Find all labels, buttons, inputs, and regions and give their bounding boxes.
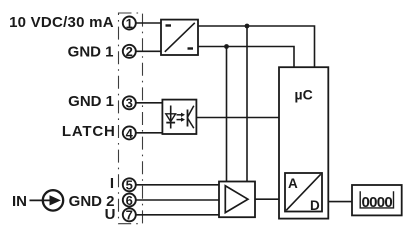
terminal 5	[123, 178, 136, 193]
svg-text:U: U	[105, 206, 116, 223]
svg-text:A: A	[288, 176, 298, 191]
svg-text:IN: IN	[12, 193, 27, 210]
svg-text:7: 7	[126, 208, 133, 223]
wire top rail down to amplifier	[246, 26, 248, 182]
terminal 3	[123, 96, 136, 111]
junction dot on second rail	[224, 44, 229, 49]
terminal 4	[123, 126, 136, 141]
svg-text:µC: µC	[295, 87, 313, 103]
wire DC/DC second output rail	[198, 47, 294, 68]
terminal 1	[123, 16, 136, 31]
svg-text:D: D	[310, 198, 320, 213]
wire terminal3 to optocoupler	[137, 102, 163, 104]
wire terminal7 (U) to amplifier	[137, 214, 220, 216]
terminal 6	[123, 193, 136, 208]
wire terminal2 to DC/DC	[137, 50, 162, 52]
svg-text:3: 3	[126, 96, 133, 111]
junction dot on top rail	[245, 24, 250, 29]
svg-text:6: 6	[126, 193, 133, 208]
svg-text:GND 1: GND 1	[68, 44, 114, 61]
DC/DC converter U1	[161, 20, 198, 55]
svg-text:LATCH: LATCH	[62, 123, 116, 140]
wire DC/DC top output rail	[198, 26, 315, 67]
terminal 2	[123, 44, 136, 59]
optocoupler U2	[162, 100, 196, 134]
wire second rail down to amplifier	[226, 47, 228, 182]
terminal 7	[123, 208, 136, 223]
wire terminal1 to DC/DC	[137, 22, 162, 24]
svg-text:GND 1: GND 1	[68, 93, 114, 110]
wire amplifier to microcontroller	[255, 198, 279, 200]
wire optocoupler to microcontroller	[196, 117, 279, 119]
svg-text:10 VDC/30 mA: 10 VDC/30 mA	[9, 14, 114, 31]
terminal strip dashed boundary	[119, 13, 143, 224]
microcontroller U3	[279, 67, 328, 218]
display 0000	[352, 185, 402, 215]
amplifier A1	[219, 182, 255, 218]
A/D converter	[285, 173, 322, 213]
svg-text:2: 2	[126, 44, 133, 59]
svg-text:I: I	[110, 175, 114, 192]
wire terminal4 to optocoupler	[137, 132, 163, 134]
wire terminal5 (I) to amplifier	[137, 184, 220, 186]
svg-text:5: 5	[126, 178, 133, 193]
current source S1	[30, 190, 64, 210]
wire microcontroller to display	[328, 201, 352, 203]
svg-text:1: 1	[126, 16, 133, 31]
svg-text:4: 4	[126, 126, 134, 141]
wire terminal6 (GND 2) to amplifier	[137, 199, 220, 201]
svg-text:0000: 0000	[362, 194, 393, 211]
